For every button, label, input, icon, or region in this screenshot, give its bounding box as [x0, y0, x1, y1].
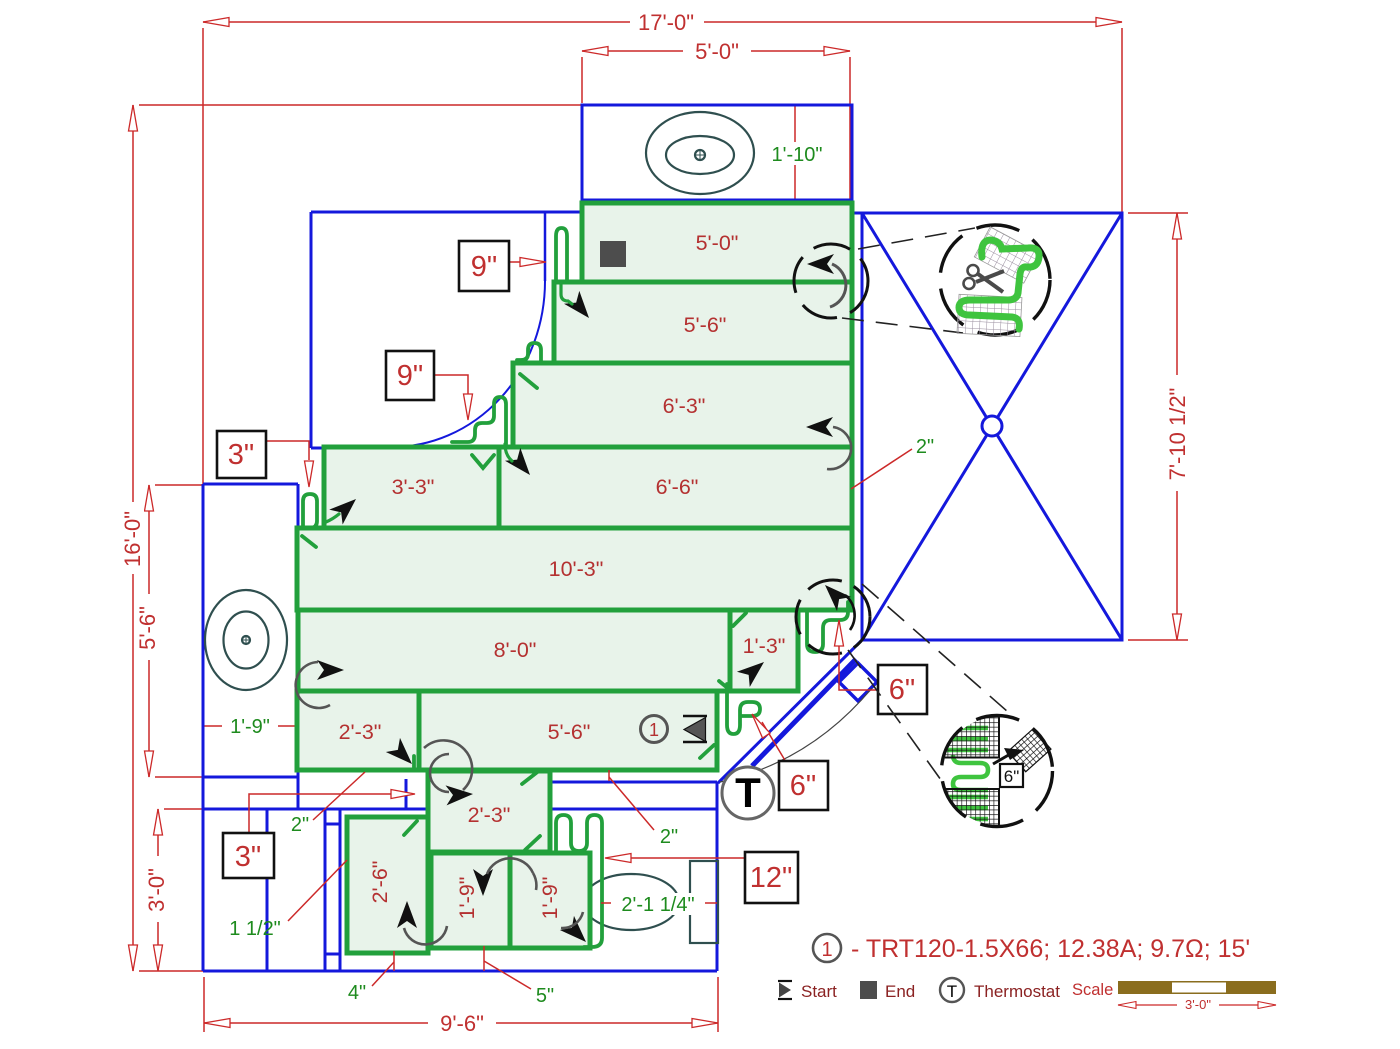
svg-text:3'-0": 3'-0" [1185, 997, 1211, 1012]
mesh patch bottom [957, 294, 1022, 336]
cable loop mat 3'-3" [303, 494, 317, 528]
svg-text:2": 2" [660, 826, 678, 848]
arrow mat 5'-6" [564, 291, 597, 325]
cable tick 1'-3" top [733, 613, 746, 626]
cable detail top [959, 240, 1039, 329]
mat 5'-6" [554, 282, 852, 363]
svg-text:12": 12" [750, 862, 793, 894]
cable comb bottom [556, 815, 602, 947]
legend circuit id [813, 934, 841, 962]
toilet bowl bottom room [583, 874, 679, 930]
cable tick 2'-3" second left [404, 821, 417, 835]
detail ref circle door (dashed) [796, 580, 870, 654]
wall bottom room [203, 970, 717, 973]
svg-text:1 1/2": 1 1/2" [229, 918, 281, 940]
mat 2'-3" second [428, 771, 550, 852]
svg-text:5'-6": 5'-6" [684, 313, 727, 337]
svg-text:Thermostat: Thermostat [974, 982, 1060, 1001]
dimension 5'-0" line [582, 50, 850, 52]
wall angled [718, 640, 862, 783]
mat 1'-9" first [431, 853, 510, 948]
leader 3" upper [266, 441, 309, 460]
svg-text:9'-6": 9'-6" [440, 1011, 484, 1036]
mat 5'-0" [582, 203, 852, 282]
wall shower room [862, 213, 1122, 640]
shower drain circle [982, 416, 1002, 436]
cable hook 5'-6" bottom right [727, 684, 760, 734]
leader open arrowheads [305, 258, 844, 863]
dim texts [120, 10, 1190, 1036]
dimension 5'-6" line [148, 485, 150, 777]
wall corridor [552, 781, 717, 784]
svg-text:3": 3" [228, 439, 254, 471]
door swing arc main [544, 212, 547, 281]
sink top alcove [646, 112, 754, 194]
dashed leaders to detail circle bottom [848, 584, 1032, 794]
label box 9" upper [459, 241, 509, 291]
svg-text:5'-0": 5'-0" [695, 39, 739, 64]
svg-text:6": 6" [790, 770, 816, 802]
wall divider x267 [266, 809, 269, 971]
mat 3'-3" [324, 447, 499, 528]
svg-text:1'-9": 1'-9" [455, 877, 479, 920]
start symbol mat 5'-6" bottom [683, 716, 707, 742]
leader 5" [484, 961, 531, 989]
dimension 16'-0" line [132, 105, 134, 971]
svg-text:16'-0": 16'-0" [120, 511, 145, 567]
mat 6'-6" [499, 447, 852, 528]
svg-text:2": 2" [291, 814, 309, 836]
svg-text:6'-3": 6'-3" [663, 394, 706, 418]
svg-text:6": 6" [889, 674, 915, 706]
mat 10'-3" [297, 528, 852, 610]
door swing arc angled [720, 688, 872, 782]
svg-text:5": 5" [536, 985, 554, 1007]
leader 1 1/2" [288, 860, 347, 921]
label box 6" upper [878, 665, 927, 714]
mesh patch bottom-left [930, 789, 999, 837]
mat 5'-6" bottom [419, 691, 717, 770]
detail 6" box [1000, 764, 1023, 787]
svg-text:2'-6": 2'-6" [368, 861, 392, 904]
cable detail bottom serpentine [947, 728, 988, 819]
mat 2'-6" [347, 817, 428, 953]
dashed leaders to detail circle top [842, 228, 975, 333]
mat 6'-3" [513, 363, 852, 447]
arrow mat 1'-9" second [560, 916, 593, 949]
door jamb diamond [839, 663, 877, 701]
door leaf angled [752, 659, 856, 766]
svg-text:10'-3": 10'-3" [549, 557, 604, 581]
arrow mat 6'-3" right [806, 417, 833, 437]
svg-text:1'-3": 1'-3" [743, 634, 786, 658]
arrow mat 6'-6" left [505, 448, 538, 482]
svg-text:- TRT120-1.5X66; 12.38A; 9.7Ω;: - TRT120-1.5X66; 12.38A; 9.7Ω; 15' [851, 935, 1250, 963]
wall stub x406 [405, 779, 408, 809]
mesh patch top-left [930, 712, 999, 758]
svg-text:End: End [885, 982, 915, 1001]
leader 12" [631, 857, 745, 859]
legend thermostat symbol [940, 978, 1060, 1002]
svg-text:5'-6": 5'-6" [548, 720, 591, 744]
mat 8'-0" [298, 610, 730, 691]
mat labels red [339, 231, 786, 919]
dimension 3'-0" line [157, 809, 159, 971]
detail circle bottom [930, 712, 1053, 837]
thermostat [722, 767, 774, 819]
toilet tank bottom room [690, 861, 718, 943]
arrow mat 2'-3" second [446, 784, 474, 805]
leader 2" right [851, 449, 912, 489]
svg-text:2'-3": 2'-3" [339, 720, 382, 744]
arrow mat 3'-3" [329, 492, 362, 525]
green annotations [222, 142, 934, 1007]
leader 6" lower [762, 722, 786, 762]
svg-text:4": 4" [348, 982, 366, 1004]
svg-text:1: 1 [649, 720, 659, 740]
svg-text:17'-0": 17'-0" [638, 10, 694, 35]
label box 12" [745, 852, 798, 903]
svg-text:2": 2" [916, 436, 934, 458]
leader 6" upper [839, 646, 878, 690]
svg-text:Start: Start [801, 982, 837, 1001]
legend end symbol [860, 981, 915, 1001]
arrow mat 2'-3" first [386, 738, 419, 771]
wall main room left [310, 212, 313, 448]
dimension 17'-0" line [203, 21, 1122, 23]
label box 9" lower [386, 351, 434, 400]
svg-text:T: T [735, 769, 761, 816]
svg-text:1'-9": 1'-9" [230, 716, 270, 738]
detail circle top [940, 225, 1050, 337]
cable tick 2'-3" second top right [522, 770, 540, 784]
mat 2'-3" [297, 691, 419, 770]
svg-text:6'-6": 6'-6" [656, 475, 699, 499]
svg-text:5'-6": 5'-6" [135, 606, 160, 650]
dimension 1'-10" line [794, 105, 796, 203]
mesh patch top [974, 227, 1039, 283]
svg-text:3'-3": 3'-3" [392, 475, 435, 499]
arrow mat 2'-6" [397, 901, 417, 928]
leader 4" [372, 962, 394, 986]
arrow mat 1'-3" [737, 654, 771, 687]
svg-text:9": 9" [471, 251, 497, 283]
svg-text:2'-3": 2'-3" [468, 803, 511, 827]
cable loop mat 5'-6" start [556, 228, 567, 282]
legend scale bar [1072, 981, 1276, 1012]
svg-text:6": 6" [1004, 767, 1020, 786]
svg-text:3'-0": 3'-0" [144, 868, 169, 912]
leader 9" lower [434, 375, 468, 414]
wall double x325-340 [324, 809, 327, 971]
mat 1'-3" [730, 610, 798, 691]
dimension 7'-10 1/2" line [1176, 213, 1178, 640]
svg-text:8'-0": 8'-0" [494, 638, 537, 662]
svg-text:5'-0": 5'-0" [696, 231, 739, 255]
label box 3" upper [217, 431, 266, 478]
leader 9" upper [509, 261, 520, 263]
label box 3" lower [223, 833, 274, 878]
cable hook mat 6'-3" [517, 343, 541, 361]
svg-text:7'-10 1/2": 7'-10 1/2" [1165, 388, 1190, 481]
leader 2" left [313, 772, 365, 820]
svg-text:1: 1 [821, 939, 832, 961]
dim arrowheads [129, 18, 1182, 1028]
cable tick 2'-3" second bottom [525, 836, 540, 850]
scissors [964, 265, 1005, 292]
svg-text:3": 3" [235, 841, 261, 873]
mesh patch right [1008, 729, 1051, 772]
wall toilet alcove [582, 105, 852, 200]
svg-text:1'-9": 1'-9" [538, 877, 562, 920]
wall left room [203, 483, 298, 486]
detail ref circle top (dashed) [794, 244, 868, 318]
detail arrow [993, 753, 1012, 764]
circuit number 1 [641, 716, 668, 743]
arrow mat 8'-0" left [317, 660, 344, 680]
svg-text:Scale: Scale [1072, 981, 1113, 999]
leader 3" lower [249, 794, 391, 833]
wall main room top [311, 211, 582, 214]
mat 1'-9" second [510, 853, 590, 948]
dimension 1'-9" left room [203, 725, 297, 727]
leader 2" center [609, 777, 654, 830]
svg-text:1'-10": 1'-10" [772, 144, 823, 166]
svg-text:T: T [947, 982, 957, 1001]
end symbol mat 5'-0" [600, 241, 626, 267]
svg-text:2'-1 1/4": 2'-1 1/4" [621, 894, 694, 916]
cable hook 10'-3" right [807, 602, 848, 652]
svg-text:9": 9" [397, 360, 423, 392]
label box 6" lower [779, 761, 828, 810]
legend start symbol [778, 981, 837, 1001]
arrow mat 1'-9" first [473, 869, 493, 896]
cable hook mat 6'-6" [452, 397, 506, 444]
dimension 9'-6" line [204, 1022, 718, 1024]
sink left room [205, 590, 287, 690]
